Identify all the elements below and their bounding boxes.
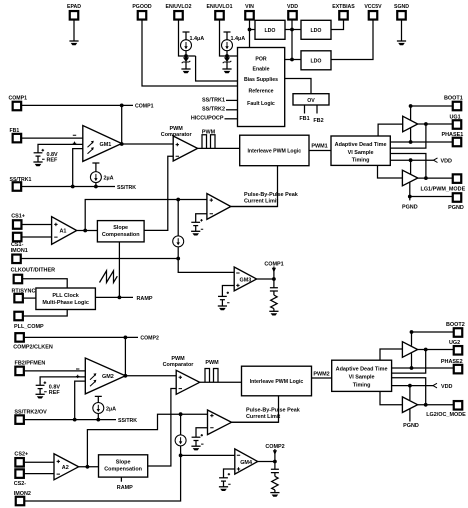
node UG2 junction [424, 348, 428, 352]
battery reference (current limit 1) [191, 219, 203, 231]
op-amp PWM Comparator 1 [161, 126, 198, 161]
driver U5 (LG1) [402, 170, 417, 186]
node UG1 junction [424, 122, 428, 126]
wire SGND to ground [401, 20, 403, 41]
wire UG2 output [418, 349, 454, 351]
wire UG1 driver to PHASE1 [410, 128, 412, 142]
node VDD/LDO3 in [290, 58, 294, 62]
wire PGOOD to POR box [142, 20, 238, 86]
svg-text:HICCUPOCP: HICCUPOCP [191, 116, 224, 122]
wire VDD to drivers 2 [392, 385, 434, 387]
ground (COMP2 network) [270, 493, 279, 497]
wire A2 output up to current limit comparator 2 [87, 414, 207, 467]
wire POR to OV [285, 79, 311, 94]
svg-text:Compensation: Compensation [104, 467, 142, 473]
svg-text:SGND: SGND [394, 4, 409, 10]
zener clamp D1 [182, 56, 191, 69]
op-amp Pulse-By-Pulse Peak Current Limit 1 [207, 192, 299, 219]
driver U4 (UG1) [403, 116, 418, 132]
svg-text:SS/TRK: SS/TRK [117, 185, 136, 191]
svg-text:VDD: VDD [441, 158, 453, 164]
wire CS1+ to A1 [22, 224, 52, 226]
node BOOT1 junction [409, 104, 413, 108]
svg-text:Pulse-By-Pulse Peak: Pulse-By-Pulse Peak [244, 192, 299, 198]
LDO U1 [255, 20, 285, 39]
svg-text:REF: REF [47, 157, 59, 163]
current source I1 1.4uA (EN/UVLO2) [181, 32, 205, 56]
op-amp GM3 [234, 267, 256, 291]
svg-text:PHASE1: PHASE1 [442, 132, 464, 138]
node COMP2 junction [124, 336, 128, 340]
pin IMON2 [14, 491, 31, 505]
wire RT/SYNC to PLL [23, 297, 36, 299]
wire FB1 to GM1 inverting input [22, 137, 83, 139]
node PHASE2 junction [410, 366, 414, 370]
svg-text:Slope: Slope [113, 225, 128, 231]
ground (SGND) [397, 41, 406, 45]
svg-text:SS/TRK: SS/TRK [118, 418, 137, 424]
pin RT/SYNC [12, 289, 36, 303]
wire COMP1 to GM1 output [121, 105, 123, 144]
svg-text:LDO: LDO [265, 28, 276, 34]
pin FB2/PFMEN [15, 361, 46, 376]
wire A1 output up to current limit comparator 1 [85, 200, 207, 231]
pin CLKOUT/DITHER [11, 267, 55, 283]
ground (EPAD) [69, 41, 78, 45]
wire SS clamp input to GM2 [75, 381, 86, 420]
wire COMP2 [24, 336, 138, 338]
pin FB1 [10, 128, 22, 142]
op-amp GM4 [235, 449, 258, 474]
wire LG1 output [418, 177, 453, 179]
svg-text:IMON1: IMON1 [11, 248, 28, 254]
PWM waveform symbol 1 [202, 129, 216, 148]
svg-text:COMP1: COMP1 [135, 104, 154, 110]
driver U7 (LG2) [402, 397, 417, 413]
svg-text:PGND: PGND [448, 205, 464, 211]
wire Adaptive 2 to LG2 driver input [380, 391, 402, 404]
block Adaptive Dead Time VI Sample Timing 1 [331, 136, 390, 165]
wire EPAD to ground [73, 20, 75, 41]
svg-text:Current Limit: Current Limit [246, 414, 280, 420]
svg-text:PWM1: PWM1 [311, 143, 327, 149]
svg-text:Pulse-By-Pulse Peak: Pulse-By-Pulse Peak [246, 407, 301, 413]
wire Adaptive 2 to UG2 driver input [380, 349, 402, 360]
battery 0.8V REF (GM1) [34, 149, 58, 163]
capacitor C1 (COMP1 network) [270, 279, 278, 291]
op-amp A2 [54, 454, 79, 480]
node SS/TRK2/2uA junction [96, 418, 100, 422]
svg-text:Slope: Slope [116, 460, 131, 466]
wire UG1 feedback to Adaptive 1 [390, 124, 426, 148]
wire IMON1 node to GM3 inverting input [178, 259, 234, 273]
node EN/UVLO1 clamp junction [225, 54, 229, 58]
pin COMP2/CLKEN [13, 333, 53, 350]
svg-text:REF: REF [49, 390, 61, 396]
svg-text:GM3: GM3 [240, 277, 252, 283]
LDO U3 [301, 51, 331, 70]
block OV [293, 94, 329, 105]
block POR/Enable/Bias Supplies/Reference/Fault Logic [238, 48, 285, 127]
wire PGND to pin [410, 196, 453, 198]
wire UG1 output [418, 123, 453, 125]
LDO U2 [301, 20, 331, 39]
pin SS/TRK1 [10, 177, 32, 191]
wire LDO1 out to LDO2 [285, 29, 301, 31]
wire SS/TRK2 [24, 419, 116, 421]
wire PWM comparator 2 inverting input to slope comp 2 [148, 389, 177, 467]
svg-text:SS/TRK1: SS/TRK1 [10, 177, 32, 183]
svg-text:PWM: PWM [205, 360, 219, 366]
svg-text:1.4µA: 1.4µA [231, 36, 246, 42]
wire UG2 feedback to Adaptive 2 [392, 350, 426, 374]
wire CLKOUT/DITHER to PLL [23, 279, 68, 288]
wire PHASE1 [390, 141, 452, 143]
svg-text:FB1: FB1 [299, 116, 309, 122]
ground (GM4 REF) [219, 487, 228, 491]
pin PHASE2 [441, 359, 463, 373]
wire EN/UVLO2 down [179, 20, 196, 56]
pin PLL_COMP [14, 312, 44, 330]
svg-text:EN/UVLO1: EN/UVLO1 [207, 4, 233, 10]
svg-text:Compensation: Compensation [102, 232, 140, 238]
wire EN/UVLO1 to POR box [220, 20, 238, 56]
zener clamp D2 [223, 56, 232, 69]
svg-text:BOOT1: BOOT1 [444, 96, 463, 102]
svg-text:CS2-: CS2- [14, 481, 27, 487]
svg-text:Comparator: Comparator [161, 132, 193, 138]
node VIN/LDO1 junction [248, 28, 252, 32]
svg-text:CLKOUT/DITHER: CLKOUT/DITHER [11, 267, 55, 273]
wire PWM comparator 1 output to Interleave 1 [198, 147, 240, 149]
svg-text:PLL Clock: PLL Clock [52, 293, 79, 299]
pin COMP1 [9, 96, 28, 111]
current source I6 (IMON2) [175, 414, 186, 455]
wire POR to LDO3 [285, 59, 301, 61]
node SS/TRK1/2uA junction [94, 185, 98, 189]
wire slope comp 1 to RAMP [118, 242, 120, 298]
svg-text:SS/TRK1: SS/TRK1 [202, 97, 225, 103]
svg-text:CS2+: CS2+ [14, 451, 28, 457]
wire LDO3 out to VCC5V [331, 20, 373, 60]
svg-text:COMP2/CLKEN: COMP2/CLKEN [13, 345, 53, 351]
svg-text:Timing: Timing [353, 382, 371, 388]
svg-text:BOOT2: BOOT2 [446, 322, 465, 328]
wire SS clamp input to GM1 [73, 149, 83, 187]
block Interleave PWM Logic 1 [240, 135, 309, 166]
wire EN/UVLO2 to POR box [196, 56, 238, 81]
block PLL Clock Multi-Phase Logic [36, 288, 96, 310]
svg-text:1.4µA: 1.4µA [190, 36, 205, 42]
resistor R1 (COMP1 network) [271, 291, 277, 311]
svg-text:RAMP: RAMP [137, 296, 153, 302]
node SS/TRK2 (POR input stub) [202, 107, 237, 113]
svg-text:A2: A2 [62, 465, 69, 471]
svg-text:OV: OV [307, 98, 315, 104]
node SS/TRK2/GM2 junction [73, 418, 77, 422]
svg-text:COMP2: COMP2 [140, 336, 159, 342]
node PGND junction [408, 195, 412, 199]
svg-text:Enable: Enable [252, 67, 269, 73]
sawtooth ramp symbol [100, 271, 118, 283]
pin BOOT2 [446, 322, 465, 337]
svg-text:VI Sample: VI Sample [349, 375, 375, 381]
node GM3/COMP1 junction [272, 277, 276, 281]
wire COMP2 to GM2 output [124, 337, 126, 375]
node SS/TRK1/GM1 junction [71, 185, 75, 189]
svg-text:UG2: UG2 [449, 340, 460, 346]
svg-text:Current Limit: Current Limit [244, 199, 278, 205]
svg-text:PGOOD: PGOOD [132, 4, 152, 10]
battery REF (GM4) [219, 473, 230, 487]
current source I3 2uA (SS/TRK1) [90, 163, 113, 187]
pin CS1- [11, 233, 24, 248]
svg-text:2µA: 2µA [106, 406, 116, 412]
op-amp PWM Comparator 2 [163, 356, 200, 394]
svg-text:VDD: VDD [287, 4, 298, 10]
svg-text:GM4: GM4 [240, 460, 252, 466]
node A1 output junction [83, 229, 87, 233]
svg-text:Fault Logic: Fault Logic [247, 101, 275, 107]
node VDD arrow (ch2) [433, 383, 453, 389]
node SS/TRK1 (POR input stub) [202, 97, 237, 103]
node LG1 junction [424, 176, 428, 180]
pin EXTBIAS [332, 4, 355, 20]
wire LG2 driver to PGND [409, 409, 411, 422]
svg-text:FB1: FB1 [10, 128, 20, 134]
battery REF (GM3) [218, 292, 230, 306]
node BOOT2 junction [410, 330, 414, 334]
svg-text:LDO: LDO [311, 28, 322, 34]
svg-text:CS1+: CS1+ [11, 213, 25, 219]
block Slope Compensation 2 [99, 455, 148, 477]
wire GM1 output to PWM comparator 1 [122, 143, 174, 145]
wire CS2- to A2 [24, 473, 54, 475]
node GM2 output [124, 374, 128, 378]
wire PWM comparator 1 inverting input to slope comp 1 [144, 156, 173, 230]
svg-text:Adaptive Dead Time: Adaptive Dead Time [335, 142, 387, 148]
pin SS/TRK2/OV [14, 410, 47, 424]
wire current limit comparator 1 output [231, 206, 278, 208]
node COMP1 junction [120, 104, 124, 108]
block Slope Compensation 1 [97, 221, 144, 242]
svg-text:VI Sample: VI Sample [348, 150, 374, 156]
svg-text:A1: A1 [60, 229, 67, 235]
svg-text:FB2: FB2 [313, 118, 323, 124]
PWM waveform symbol 2 [205, 360, 219, 382]
svg-text:Adaptive Dead Time: Adaptive Dead Time [336, 367, 388, 373]
wire FB2 to GM2 inverting input [24, 370, 85, 372]
wire GM3 output [257, 278, 274, 280]
svg-text:PLL_COMP: PLL_COMP [14, 324, 44, 330]
wire VIN down into POR box [249, 20, 251, 48]
svg-text:SS/TRK2: SS/TRK2 [202, 107, 225, 113]
node current source junction (current limit 1) [176, 198, 180, 202]
op-amp GM1 [73, 126, 122, 162]
pin VIN [245, 4, 254, 20]
block Adaptive Dead Time VI Sample Timing 2 [332, 360, 392, 391]
pin CS1+ [11, 213, 25, 228]
svg-text:PHASE2: PHASE2 [441, 359, 463, 365]
op-amp Pulse-By-Pulse Peak Current Limit 2 [208, 407, 301, 434]
pin VDD [287, 4, 298, 20]
node GM1 output [120, 142, 124, 146]
pin IMON1 [11, 248, 28, 263]
wire COMP1 [22, 104, 134, 106]
node HICCUPOCP (POR input stub) [191, 116, 238, 122]
wire Adaptive 1 to LG1 driver input [378, 165, 403, 178]
ground (GM3 REF) [218, 306, 227, 310]
ground (current limit 2 ref) [191, 446, 200, 450]
node A2 output junction [86, 465, 90, 469]
svg-text:COMP1: COMP1 [264, 261, 283, 267]
driver U6 (UG2) [402, 342, 417, 358]
node VDD/LG2 driver junction [408, 384, 412, 388]
svg-text:POR: POR [255, 57, 266, 63]
node COMP2 feed arrow [265, 444, 284, 462]
wire VIN to LDO1 [250, 29, 256, 31]
svg-text:EPAD: EPAD [67, 4, 81, 10]
battery reference (current limit 2) [192, 434, 204, 446]
node LG2 junction [424, 403, 428, 407]
svg-text:EN/UVLO2: EN/UVLO2 [166, 4, 192, 10]
svg-text:VIN: VIN [245, 4, 254, 10]
svg-text:CS1-: CS1- [11, 242, 24, 248]
wire VDD to LG1 driver [410, 160, 412, 174]
pin UG1 [450, 115, 462, 129]
wire Interleave 1 to current limit comparator 1 output [231, 166, 278, 207]
wire LG2 output [418, 404, 454, 406]
pin PGND [448, 193, 464, 211]
wire Interleave 2 to current limit comparator 2 output [232, 396, 279, 423]
wire PWM1 to Adaptive Dead Time 1 [309, 150, 331, 152]
node VDD/LDO1 out [290, 28, 294, 32]
pin SGND [394, 4, 409, 20]
wire VDD to LG2 driver [409, 386, 411, 401]
node VDD/LG1 driver junction [409, 158, 413, 162]
wire PLL to RAMP [95, 296, 133, 298]
wire PHASE2 [392, 367, 454, 369]
pin VCC5V [364, 4, 382, 20]
ground (GM2 REF) [36, 394, 45, 398]
node IMON1 junction [176, 257, 180, 261]
svg-text:LG2/OC_MODE: LG2/OC_MODE [426, 412, 466, 418]
svg-text:PWM2: PWM2 [313, 372, 329, 378]
wire VDD rail down [291, 20, 293, 60]
pin EPAD [67, 4, 81, 20]
current source I2 1.4uA (EN/UVLO1) [222, 32, 246, 56]
node PHASE1 junction [409, 140, 413, 144]
wire A1 output to slope compensation 1 [77, 230, 98, 232]
wire BOOT2 [412, 332, 454, 346]
svg-text:LDO: LDO [311, 58, 322, 64]
pin LG1/PWM_MODE [421, 174, 466, 192]
wire GM4 output [258, 461, 275, 463]
op-amp GM2 [76, 358, 125, 394]
block Interleave PWM Logic 2 [242, 366, 312, 396]
pin UG2 [449, 340, 462, 354]
node COMP1 feed arrow [264, 261, 283, 279]
ground (EN/UVLO2 clamp) [181, 69, 190, 73]
svg-text:EXTBIAS: EXTBIAS [332, 4, 355, 10]
svg-text:Interleave PWM Logic: Interleave PWM Logic [250, 379, 304, 385]
svg-text:LG1/PWM_MODE: LG1/PWM_MODE [421, 186, 466, 192]
wire PWM comparator 2 output to Interleave 2 [200, 381, 242, 383]
ground (GM1 REF) [33, 162, 42, 166]
svg-text:Interleave PWM Logic: Interleave PWM Logic [247, 149, 301, 155]
pin LG2/OC_MODE [426, 401, 466, 418]
wire GM2 output to PWM comparator 2 [125, 375, 176, 377]
battery 0.8V REF (GM2) [36, 381, 61, 396]
wire IMON2 node down to IMON2 pin [25, 455, 181, 501]
svg-text:RAMP: RAMP [117, 485, 133, 491]
ground (current limit 1 ref) [191, 231, 200, 235]
svg-text:COMP1: COMP1 [9, 96, 28, 102]
svg-text:PGND: PGND [402, 205, 418, 211]
pin EN/UVLO1 [207, 4, 233, 20]
wire VDD to drivers 1 [390, 159, 434, 161]
wire IMON2 node to GM4 inverting input [181, 454, 235, 456]
pin CS2+ [14, 451, 28, 466]
wire SS/TRK1 [22, 186, 116, 188]
wire GM1 noninverting input to 0.8V REF [38, 144, 83, 152]
wire IMON1 [21, 258, 178, 260]
wire Adaptive 1 to UG1 driver input [378, 124, 403, 136]
svg-text:GM2: GM2 [102, 374, 114, 380]
svg-text:Reference: Reference [248, 89, 273, 95]
svg-text:PGND: PGND [403, 423, 419, 429]
wire Adaptive 1 to LG1 feedback [390, 154, 426, 179]
wire GM3 noninverting input to REF [222, 286, 234, 297]
pin PHASE1 [442, 132, 464, 146]
wire current limit 1 inverting input to reference [196, 214, 207, 223]
op-amp A1 [52, 217, 77, 245]
svg-text:2µA: 2µA [104, 176, 114, 182]
svg-text:GM1: GM1 [100, 142, 112, 148]
wire CS2+ to A2 [24, 461, 54, 463]
wire A2 output to slope compensation 2 [79, 466, 99, 468]
svg-text:UG1: UG1 [450, 115, 461, 121]
node RAMP junction [118, 296, 122, 300]
svg-text:Bias Supplies: Bias Supplies [244, 77, 278, 83]
svg-text:Multi-Phase Logic: Multi-Phase Logic [42, 300, 89, 306]
wire UG2 driver to PHASE2 [411, 353, 413, 368]
pin BOOT1 [444, 96, 463, 111]
node IMON2 junction [179, 454, 183, 458]
node current source junction (current limit 2) [179, 412, 183, 416]
ground (EN/UVLO1 clamp) [222, 69, 231, 73]
wire LG1 driver to PGND [409, 182, 411, 200]
wire LDO2 out to EXTBIAS [331, 20, 344, 30]
wire GM2 noninverting input to 0.8V REF [40, 377, 85, 385]
wire GM4 noninverting input to REF [224, 469, 235, 478]
svg-text:VDD: VDD [441, 384, 453, 390]
node VDD arrow (ch1) [434, 158, 453, 165]
node EN/UVLO2 clamp junction [184, 54, 188, 58]
wire CS1- to A1 [22, 236, 52, 238]
pin EN/UVLO2 [166, 4, 192, 20]
resistor R2 (COMP2 network) [272, 473, 278, 493]
pin stub FB2 (OV) [313, 105, 323, 124]
wire current limit 2 inverting input to reference [196, 428, 208, 438]
wire BOOT1 [411, 106, 453, 120]
capacitor C2 (COMP2 network) [271, 462, 279, 473]
current source I4 (IMON1) [173, 200, 184, 259]
svg-text:VCC5V: VCC5V [364, 4, 382, 10]
wire PWM2 to Adaptive Dead Time 2 [312, 377, 332, 379]
wire current limit comparator 2 output [232, 421, 279, 423]
svg-text:Comparator: Comparator [163, 362, 195, 368]
